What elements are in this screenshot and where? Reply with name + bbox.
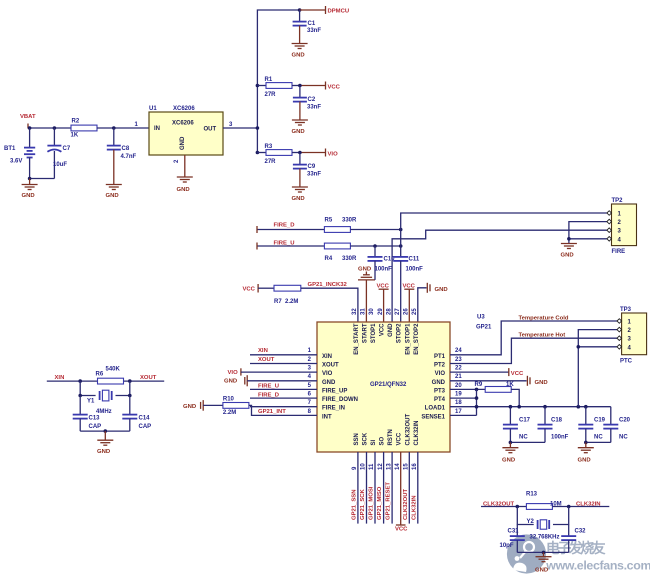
svg-text:8: 8 xyxy=(308,409,312,415)
ground BT1 xyxy=(22,179,38,200)
resistor R9 xyxy=(475,382,515,392)
svg-text:GND: GND xyxy=(535,380,548,386)
wire R4 to stop1 column xyxy=(350,245,400,247)
resistor R5 xyxy=(324,218,357,233)
svg-text:XIN: XIN xyxy=(55,375,65,381)
svg-text:C14: C14 xyxy=(139,416,151,422)
svg-text:1: 1 xyxy=(135,122,139,128)
svg-text:CLK32OUT: CLK32OUT xyxy=(403,489,409,520)
svg-text:100nF: 100nF xyxy=(375,267,393,273)
svg-text:VCC: VCC xyxy=(395,527,408,533)
power flag VCC pin14 xyxy=(395,452,408,533)
wire crystal bottom rail xyxy=(80,430,130,432)
svg-text:18: 18 xyxy=(455,400,462,406)
svg-text:GND: GND xyxy=(106,193,119,199)
capacitor C1 xyxy=(293,10,322,43)
svg-text:25: 25 xyxy=(412,308,418,315)
svg-text:540K: 540K xyxy=(106,367,121,373)
svg-text:PT3: PT3 xyxy=(434,388,446,394)
wire pin2 XOUT xyxy=(250,363,317,365)
svg-text:R6: R6 xyxy=(96,372,104,378)
wire pin20 xyxy=(450,388,485,390)
node C9 xyxy=(298,151,302,155)
svg-text:100nF: 100nF xyxy=(551,434,569,440)
svg-text:27R: 27R xyxy=(265,159,277,165)
capacitor C11 xyxy=(393,257,423,323)
svg-text:PT4: PT4 xyxy=(434,397,446,403)
svg-text:C9: C9 xyxy=(308,164,316,170)
svg-text:CAP: CAP xyxy=(89,424,102,430)
ground C2 xyxy=(292,120,308,135)
resistor R4 xyxy=(324,243,357,262)
wire pin18 bus xyxy=(450,406,611,408)
svg-text:2.2M: 2.2M xyxy=(223,410,236,416)
svg-text:4: 4 xyxy=(308,374,312,380)
svg-text:GND: GND xyxy=(358,267,371,273)
svg-text:XOUT: XOUT xyxy=(140,375,157,381)
wire pin4 xyxy=(247,380,317,382)
node C2 xyxy=(298,84,302,88)
svg-text:STOP2: STOP2 xyxy=(397,323,403,343)
chip right pin labels xyxy=(421,354,445,421)
ground C1 xyxy=(292,44,308,59)
wire C17-C18 bottoms xyxy=(510,441,545,443)
svg-text:FIRE_D: FIRE_D xyxy=(274,223,295,229)
svg-text:29: 29 xyxy=(378,308,384,315)
wire R9 to bus xyxy=(511,389,519,406)
svg-text:NC: NC xyxy=(519,434,528,440)
svg-text:VCC: VCC xyxy=(397,432,403,445)
wire pin10 GP21_SCK xyxy=(366,452,368,524)
ground TP2 xyxy=(561,244,577,259)
svg-text:GND: GND xyxy=(322,380,336,386)
svg-text:GND: GND xyxy=(224,379,237,385)
svg-text:STOP1: STOP1 xyxy=(371,323,377,343)
svg-text:1K: 1K xyxy=(506,382,514,388)
wire pin1 XIN xyxy=(250,354,317,356)
power flag VIO xyxy=(326,149,339,158)
svg-text:GP21_INCK32: GP21_INCK32 xyxy=(308,282,348,288)
svg-text:GP21: GP21 xyxy=(476,325,492,331)
svg-text:19: 19 xyxy=(455,392,462,398)
svg-text:C8: C8 xyxy=(122,146,130,152)
capacitor C13 xyxy=(73,396,101,432)
svg-text:R9: R9 xyxy=(475,382,483,388)
svg-text:32.768KHz: 32.768KHz xyxy=(530,535,560,541)
svg-text:Y2: Y2 xyxy=(527,519,535,525)
svg-text:VCC: VCC xyxy=(328,84,341,90)
svg-text:33nF: 33nF xyxy=(307,105,321,111)
svg-text:GP21_SCK: GP21_SCK xyxy=(360,488,366,520)
svg-text:C19: C19 xyxy=(594,418,606,424)
svg-text:GP21_SSN: GP21_SSN xyxy=(351,490,357,520)
svg-text:GND: GND xyxy=(292,196,305,202)
svg-text:1K: 1K xyxy=(71,133,79,139)
resistor R7 xyxy=(274,285,301,305)
svg-text:5: 5 xyxy=(308,383,312,389)
capacitor C18 xyxy=(538,407,569,443)
ground flag pin4 xyxy=(224,375,247,386)
svg-text:13: 13 xyxy=(386,463,392,470)
capacitor C2 xyxy=(293,86,321,120)
svg-text:IN: IN xyxy=(154,126,160,132)
wire battery bottom rail xyxy=(30,178,55,180)
ground C17 xyxy=(502,442,518,463)
svg-text:PTC: PTC xyxy=(620,359,633,365)
svg-text:EN_STOP1: EN_STOP1 xyxy=(405,323,411,355)
svg-text:SI: SI xyxy=(371,439,377,445)
svg-text:10uF: 10uF xyxy=(53,162,67,168)
wire FIRE_D xyxy=(257,229,324,231)
wire pin17 xyxy=(450,414,477,416)
svg-text:27R: 27R xyxy=(265,92,277,98)
wire U1 gnd pin xyxy=(184,155,186,177)
svg-text:3: 3 xyxy=(308,366,312,372)
svg-text:R4: R4 xyxy=(325,256,333,262)
svg-text:XOUT: XOUT xyxy=(322,363,339,369)
svg-text:SENSE1: SENSE1 xyxy=(421,414,445,420)
power flag DPMCU xyxy=(326,6,350,15)
resistor R10 xyxy=(223,396,249,416)
svg-text:GND: GND xyxy=(180,136,186,150)
svg-text:C31: C31 xyxy=(508,528,520,534)
svg-text:SCK: SCK xyxy=(363,432,369,445)
svg-text:10pF: 10pF xyxy=(500,543,514,549)
svg-text:GND: GND xyxy=(432,380,446,386)
svg-text:C17: C17 xyxy=(519,418,531,424)
svg-text:GND: GND xyxy=(435,287,448,293)
svg-text:电子发烧友: 电子发烧友 xyxy=(546,540,606,556)
wire TP2 pin3 net xyxy=(392,230,607,322)
svg-text:PT1: PT1 xyxy=(434,354,446,360)
svg-text:C1: C1 xyxy=(308,21,316,27)
svg-text:TP3: TP3 xyxy=(620,307,632,313)
capacitor C9 xyxy=(293,153,321,187)
wire TP2 pin1 net xyxy=(401,213,607,256)
svg-text:R13: R13 xyxy=(526,492,538,498)
wire R2 to U1 xyxy=(97,127,149,129)
svg-text:PT2: PT2 xyxy=(434,363,446,369)
svg-text:FIRE_D: FIRE_D xyxy=(258,392,279,398)
node C7 top xyxy=(53,126,57,130)
svg-text:XIN: XIN xyxy=(322,354,332,360)
resistor R1 xyxy=(257,77,325,98)
wire pin15 CLK32OUT xyxy=(408,452,410,524)
wire pin19 xyxy=(450,397,477,399)
svg-text:3.6V: 3.6V xyxy=(10,159,22,165)
ground flag R10 xyxy=(183,400,203,411)
power flag VBAT xyxy=(20,114,36,129)
svg-text:32: 32 xyxy=(352,308,358,315)
svg-text:XOUT: XOUT xyxy=(258,357,275,363)
wire clk rail right xyxy=(552,506,609,508)
capacitor C10 xyxy=(368,246,396,280)
chip top pin labels xyxy=(354,323,420,355)
ground Y1 xyxy=(97,431,113,455)
ground C8 xyxy=(106,185,122,200)
svg-text:FIRE_U: FIRE_U xyxy=(258,384,279,390)
svg-text:26: 26 xyxy=(404,308,410,315)
wire TP3 pins 2+4 xyxy=(578,330,617,407)
svg-text:20: 20 xyxy=(455,383,462,389)
wire VBAT rail xyxy=(28,127,71,129)
ground flag pin21 xyxy=(450,376,548,386)
svg-text:TP2: TP2 xyxy=(612,198,624,204)
capacitor C17 xyxy=(503,407,531,443)
power flag VCC xyxy=(326,82,341,91)
svg-text:2.2M: 2.2M xyxy=(285,299,298,305)
chip left pin labels xyxy=(322,354,358,421)
svg-text:14: 14 xyxy=(395,463,401,470)
wire pin5 xyxy=(250,388,317,390)
svg-text:DPMCU: DPMCU xyxy=(328,9,350,15)
wire C19-C20 bottoms xyxy=(586,441,611,443)
svg-text:VCC: VCC xyxy=(243,287,256,293)
svg-text:VCC: VCC xyxy=(511,371,524,377)
svg-text:C20: C20 xyxy=(619,418,631,424)
wire clk rail left xyxy=(481,506,526,508)
svg-text:9: 9 xyxy=(352,466,358,470)
capacitor C31 xyxy=(500,525,525,553)
chip right pin numbers 24..17 xyxy=(455,348,462,415)
wire gnd to R10 xyxy=(203,404,223,406)
svg-text:SO: SO xyxy=(380,436,386,445)
connector TP2 xyxy=(607,198,637,246)
capacitor C7 xyxy=(47,128,70,179)
svg-text:11: 11 xyxy=(369,463,375,470)
svg-text:FIRE_IN: FIRE_IN xyxy=(322,406,345,412)
svg-text:GND: GND xyxy=(97,449,110,455)
chip bottom pin numbers 9..16 xyxy=(352,463,418,470)
wire OUT riser xyxy=(257,10,299,153)
svg-text:C13: C13 xyxy=(89,416,101,422)
svg-text:FIRE_DOWN: FIRE_DOWN xyxy=(322,397,358,403)
svg-text:4MHz: 4MHz xyxy=(96,409,112,415)
power flag VCC pin22 xyxy=(450,368,524,377)
wire pin24 to TP3 pin1 xyxy=(450,321,617,355)
svg-text:GND: GND xyxy=(183,404,196,410)
svg-text:VBAT: VBAT xyxy=(20,114,36,120)
wire to DPMCU xyxy=(300,9,326,11)
svg-text:EN_STOP2: EN_STOP2 xyxy=(414,323,420,355)
wire VCC to R7 xyxy=(258,287,274,289)
svg-text:CLK32IN: CLK32IN xyxy=(414,420,420,445)
capacitor C19 xyxy=(578,407,605,443)
capacitor C8 xyxy=(107,128,137,184)
wire pin9 GP21_SSN xyxy=(357,452,359,524)
svg-text:6: 6 xyxy=(308,392,312,398)
power flag VCC pin26 xyxy=(403,284,416,323)
svg-text:GP21_MOSI: GP21_MOSI xyxy=(369,486,375,520)
svg-text:VIO: VIO xyxy=(435,371,446,377)
svg-text:R5: R5 xyxy=(325,218,333,224)
wire U1 out xyxy=(223,127,257,129)
ground flag pin25 xyxy=(427,283,447,293)
svg-text:12: 12 xyxy=(378,463,384,470)
wire pin6 xyxy=(250,397,317,399)
svg-text:U3: U3 xyxy=(477,315,485,321)
node DPMCU xyxy=(298,8,302,12)
svg-text:Temperature Hot: Temperature Hot xyxy=(519,332,566,338)
svg-text:Y1: Y1 xyxy=(87,399,95,405)
svg-text:R3: R3 xyxy=(265,144,273,150)
svg-text:www.elecfans.com: www.elecfans.com xyxy=(545,559,650,573)
wire pin25 to gnd flag xyxy=(418,288,427,322)
svg-text:23: 23 xyxy=(455,357,462,363)
svg-text:SSN: SSN xyxy=(354,433,360,445)
svg-text:VIO: VIO xyxy=(322,371,333,377)
power flag VIO pin3 xyxy=(228,368,241,376)
svg-text:LOAD1: LOAD1 xyxy=(425,406,446,412)
wire FIRE_U xyxy=(257,245,324,247)
power flag VCC R7 xyxy=(243,284,259,293)
resistor R6 xyxy=(96,367,124,385)
svg-text:GND: GND xyxy=(388,323,394,337)
svg-text:31: 31 xyxy=(361,308,367,315)
capacitor C14 xyxy=(122,396,151,432)
svg-text:VIO: VIO xyxy=(328,151,339,157)
svg-text:CLK32IN: CLK32IN xyxy=(411,495,417,520)
wire pin3 xyxy=(241,371,317,373)
wire pin23 to TP3 pin3 xyxy=(450,338,617,363)
chip left pin numbers 1..8 xyxy=(308,348,312,415)
ground C9 xyxy=(292,187,308,202)
svg-text:NC: NC xyxy=(619,434,628,440)
wire pin12 GP21_MISO xyxy=(383,452,385,524)
wire R5 to stop2 column xyxy=(350,229,400,231)
svg-text:VCC: VCC xyxy=(380,323,386,336)
svg-text:XIN: XIN xyxy=(258,348,268,354)
svg-text:27: 27 xyxy=(395,308,401,315)
svg-text:INT: INT xyxy=(322,414,332,420)
svg-text:GND: GND xyxy=(561,253,574,259)
svg-text:GND: GND xyxy=(578,458,591,464)
svg-text:GP21_RESET: GP21_RESET xyxy=(386,482,392,520)
svg-text:C32: C32 xyxy=(575,528,587,534)
wire pins 20-19-18-17 tie xyxy=(476,389,478,415)
wire pin13 GP21_RESET xyxy=(391,452,393,524)
crystal Y2 xyxy=(517,507,568,541)
svg-text:7: 7 xyxy=(308,400,312,406)
resistor R2 xyxy=(71,119,98,139)
svg-text:CLK32IN: CLK32IN xyxy=(576,502,601,508)
svg-text:GND: GND xyxy=(292,53,305,59)
svg-text:EN_START: EN_START xyxy=(354,323,360,355)
svg-text:XC6206: XC6206 xyxy=(172,121,194,127)
svg-text:330R: 330R xyxy=(342,218,357,224)
resistor R3 xyxy=(257,144,325,165)
svg-text:VIO: VIO xyxy=(228,370,239,376)
svg-text:XC6206: XC6206 xyxy=(173,106,195,112)
svg-text:GND: GND xyxy=(292,129,305,135)
ground Y2 xyxy=(535,552,552,573)
svg-text:Temperature Cold: Temperature Cold xyxy=(519,316,569,322)
svg-text:15: 15 xyxy=(404,463,410,470)
svg-text:GP21/QFN32: GP21/QFN32 xyxy=(370,382,407,388)
svg-text:FIRE_UP: FIRE_UP xyxy=(322,388,347,394)
svg-text:CLK32OUT: CLK32OUT xyxy=(405,413,411,445)
svg-text:100nF: 100nF xyxy=(406,267,424,273)
svg-text:CAP: CAP xyxy=(139,424,152,430)
svg-text:22: 22 xyxy=(455,366,462,372)
connector TP3 xyxy=(617,307,647,355)
svg-text:NC: NC xyxy=(594,434,603,440)
wire pin7 xyxy=(250,406,317,408)
capacitor C20 xyxy=(603,407,630,443)
svg-text:C7: C7 xyxy=(63,146,71,152)
wire Y2 bottom rail xyxy=(517,551,568,553)
wire TP2 pin4 gnd xyxy=(569,238,607,240)
wire pin16 CLK32IN xyxy=(417,452,419,524)
svg-text:GND: GND xyxy=(22,193,35,199)
svg-text:R1: R1 xyxy=(265,77,273,83)
svg-text:24: 24 xyxy=(455,348,462,354)
svg-text:U1: U1 xyxy=(149,106,157,112)
svg-text:GP21_INT: GP21_INT xyxy=(258,409,286,415)
svg-text:R10: R10 xyxy=(223,396,235,402)
op-amp U3 GP21/QFN32 body xyxy=(317,322,450,452)
svg-text:2: 2 xyxy=(174,159,180,163)
svg-text:1: 1 xyxy=(308,348,312,354)
chip top pin numbers 32..25 xyxy=(352,308,418,315)
wire R7 to pin32 xyxy=(301,288,358,322)
svg-text:30: 30 xyxy=(369,308,375,315)
crystal Y1 xyxy=(78,381,131,415)
svg-text:RSTN: RSTN xyxy=(388,429,394,445)
svg-text:4.7nF: 4.7nF xyxy=(121,154,137,160)
svg-text:R7: R7 xyxy=(274,299,282,305)
svg-text:C18: C18 xyxy=(551,418,563,424)
svg-text:3: 3 xyxy=(229,122,233,128)
svg-text:21: 21 xyxy=(455,374,462,380)
svg-text:GND: GND xyxy=(502,458,515,464)
wire crystal top rail xyxy=(47,380,164,382)
svg-text:33nF: 33nF xyxy=(307,28,321,34)
regulator U1 XC6206 xyxy=(149,106,223,155)
svg-text:GP21_MISO: GP21_MISO xyxy=(377,486,383,520)
ground pin31 xyxy=(358,267,375,280)
svg-text:R2: R2 xyxy=(72,119,80,125)
svg-text:GND: GND xyxy=(177,187,190,193)
svg-text:28: 28 xyxy=(386,308,392,315)
wire R10 to pin8 xyxy=(249,405,317,415)
svg-text:17: 17 xyxy=(455,409,462,415)
svg-text:FIRE: FIRE xyxy=(612,249,626,255)
svg-text:GND: GND xyxy=(535,568,548,574)
wire pin11 GP21_MOSI xyxy=(374,452,376,524)
wire pin31 gnd xyxy=(365,280,367,322)
node BT1 top xyxy=(28,126,32,130)
svg-text:330R: 330R xyxy=(342,256,357,262)
svg-text:C11: C11 xyxy=(409,257,420,263)
svg-text:OUT: OUT xyxy=(204,127,217,133)
battery BT1 xyxy=(4,128,35,179)
svg-text:10: 10 xyxy=(361,463,367,470)
svg-text:BT1: BT1 xyxy=(4,146,16,152)
power flag VCC pin29 xyxy=(377,284,390,323)
wire TP2 pin2 gnd xyxy=(569,222,607,243)
svg-text:16: 16 xyxy=(412,463,418,470)
svg-text:2: 2 xyxy=(308,357,312,363)
svg-text:C2: C2 xyxy=(308,97,316,103)
ground U1 xyxy=(177,177,193,193)
svg-text:START: START xyxy=(363,323,369,343)
capacitor C32 xyxy=(561,525,586,553)
resistor R13 xyxy=(526,492,562,510)
ground C19 xyxy=(578,442,594,463)
svg-text:33nF: 33nF xyxy=(307,172,321,178)
chip bottom pin labels xyxy=(354,413,420,445)
